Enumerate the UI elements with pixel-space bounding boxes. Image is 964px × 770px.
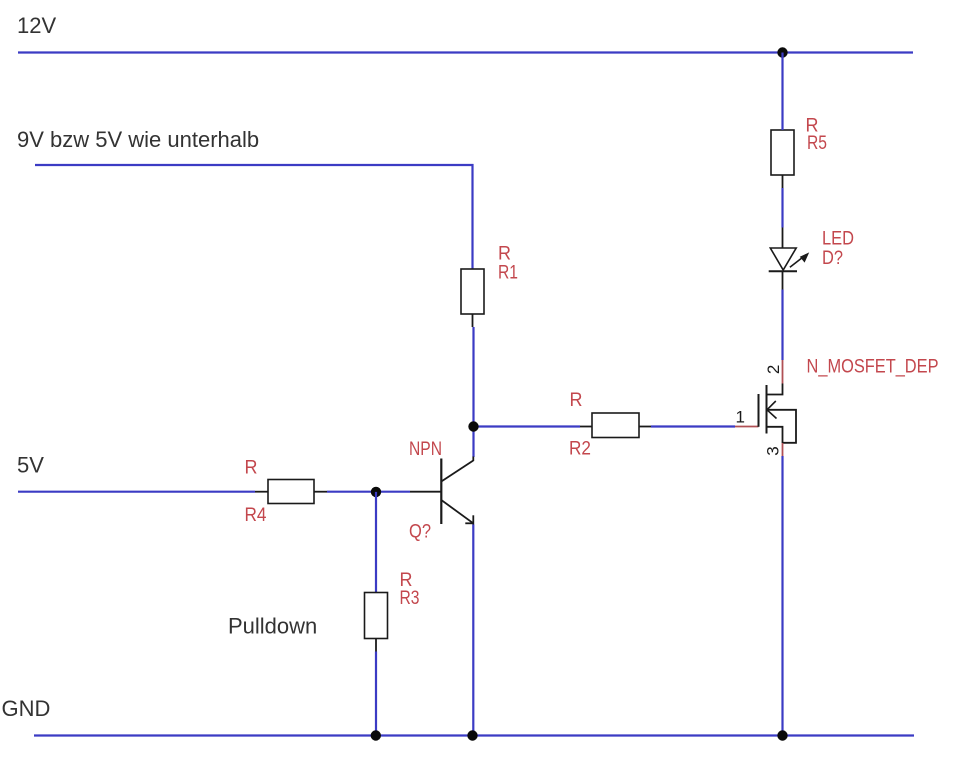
svg-text:R1: R1 xyxy=(498,263,518,284)
MOSFET pin 3 (source) xyxy=(782,443,784,456)
svg-text:R: R xyxy=(245,458,258,479)
wire node to R2 xyxy=(474,425,581,427)
resistor R5 xyxy=(771,130,794,188)
MOSFET pin 1 (gate) xyxy=(735,426,759,428)
wire GND rail xyxy=(34,734,914,736)
wire emitter to GND xyxy=(472,525,474,737)
wire 9V drop to R1 xyxy=(471,164,473,269)
svg-text:R: R xyxy=(498,244,511,265)
wire MOSFET source to GND xyxy=(781,456,783,736)
wire R3 to GND xyxy=(375,652,377,737)
svg-text:R3: R3 xyxy=(400,588,420,609)
svg-text:Pulldown: Pulldown xyxy=(228,614,317,639)
wire 12V rail xyxy=(18,51,913,53)
transistor U1 N_MOSFET_DEP body xyxy=(759,384,797,444)
wire base node to R3 xyxy=(375,492,377,593)
svg-text:12V: 12V xyxy=(17,13,56,38)
wire 9V horizontal xyxy=(35,164,474,166)
resistor R2 xyxy=(580,413,651,438)
svg-text:GND: GND xyxy=(2,696,51,721)
wire R4 to base node xyxy=(327,491,410,493)
svg-text:LED: LED xyxy=(822,229,854,250)
resistor R1 xyxy=(461,269,484,327)
svg-text:NPN: NPN xyxy=(409,439,442,460)
junction GND/emitter xyxy=(467,730,477,740)
junction GND/source xyxy=(777,730,787,740)
wire 12V to R5 xyxy=(781,53,783,131)
MOSFET pin 2 (drain) xyxy=(782,360,784,384)
junction 12V/R5 xyxy=(777,47,787,57)
svg-text:R: R xyxy=(570,390,583,411)
svg-text:9V bzw 5V wie unterhalb: 9V bzw 5V wie unterhalb xyxy=(17,127,259,152)
junction GND/R3 xyxy=(371,730,381,740)
svg-text:5V: 5V xyxy=(17,453,44,478)
svg-text:R2: R2 xyxy=(569,439,591,460)
diode D? LED xyxy=(769,228,810,290)
junction collector node xyxy=(468,421,478,431)
wire drain to LED xyxy=(781,290,783,361)
svg-text:R5: R5 xyxy=(807,133,827,154)
svg-text:3: 3 xyxy=(764,446,783,455)
wire R1 to collector node xyxy=(472,327,474,457)
wire LED to R5 xyxy=(781,188,783,228)
transistor Q? NPN xyxy=(410,457,473,525)
resistor R4 xyxy=(255,480,327,504)
svg-text:N_MOSFET_DEP: N_MOSFET_DEP xyxy=(807,357,939,378)
svg-text:2: 2 xyxy=(764,365,783,374)
svg-text:R4: R4 xyxy=(245,505,267,526)
wire R2 to MOSFET gate xyxy=(651,425,735,427)
svg-text:Q?: Q? xyxy=(409,522,431,543)
resistor R3 xyxy=(365,593,388,652)
svg-text:D?: D? xyxy=(822,248,843,269)
wire 5V to R4 xyxy=(18,491,255,493)
junction base node xyxy=(371,487,381,497)
svg-text:1: 1 xyxy=(736,408,745,427)
